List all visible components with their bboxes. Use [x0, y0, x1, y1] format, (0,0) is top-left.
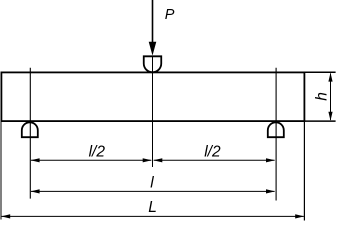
left support (roller) — [22, 122, 38, 137]
force arrow P head — [149, 42, 157, 56]
right support (roller) — [268, 122, 284, 137]
dimension L — [2, 215, 304, 217]
svg-text:P: P — [165, 7, 175, 23]
wire: L left extension line — [0, 122, 2, 220]
wire: left support extension line — [29, 68, 31, 199]
wire: h bottom extension line — [304, 120, 336, 122]
wire: L right extension line — [303, 122, 305, 221]
svg-text:l/2: l/2 — [204, 143, 221, 160]
wire: right support extension line — [275, 68, 277, 201]
force arrow P shaft — [152, 0, 154, 42]
beam (specimen rectangle) — [1, 72, 304, 121]
svg-text:l: l — [150, 174, 154, 191]
dimension l — [31, 190, 275, 192]
loading nose (top roller) — [144, 56, 162, 72]
dimension l/2 right segment — [154, 159, 275, 161]
dimension l/2 left segment — [31, 159, 151, 161]
wire: center extension line — [152, 57, 154, 168]
svg-text:h: h — [314, 92, 331, 101]
wire: h top extension line — [304, 71, 336, 73]
dimension h — [330, 74, 332, 120]
svg-text:l/2: l/2 — [89, 143, 106, 160]
svg-text:L: L — [148, 199, 157, 216]
